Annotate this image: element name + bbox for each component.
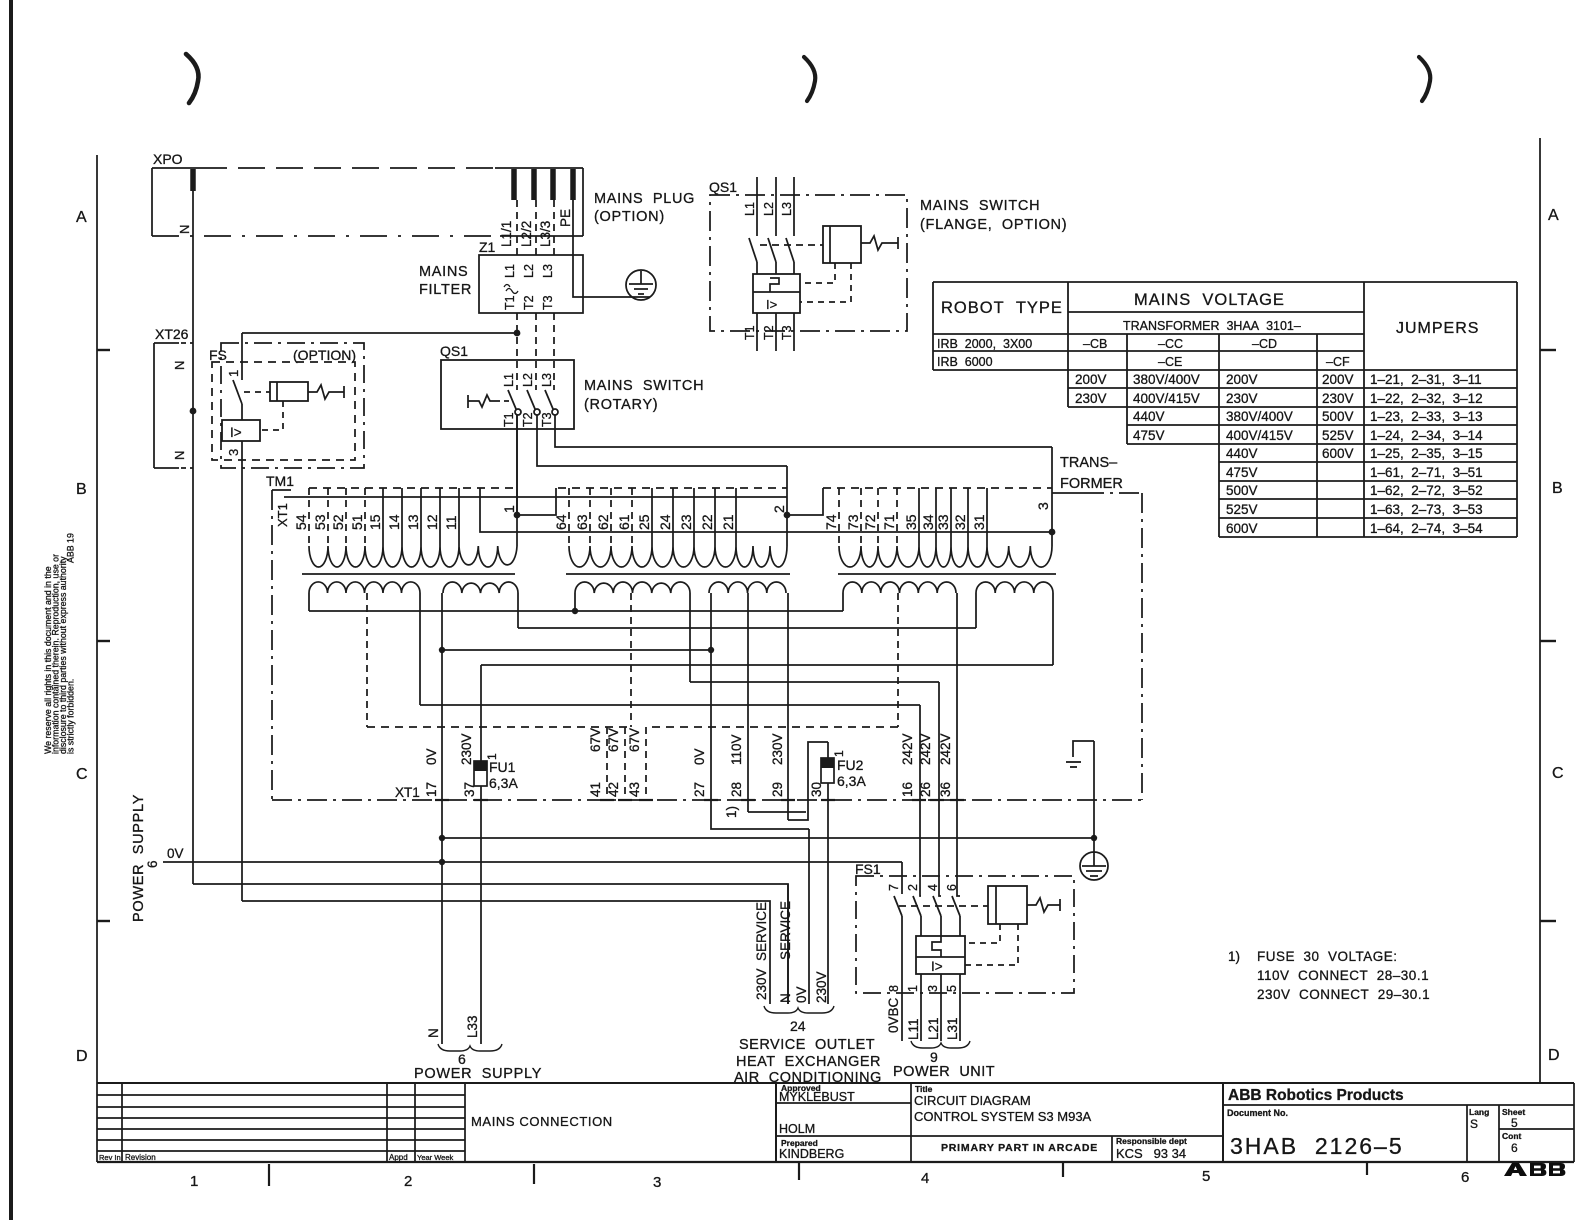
QS1 flange input wires [757, 177, 794, 236]
svg-text:(ROTARY): (ROTARY) [584, 397, 658, 413]
fuse FU1 terminal 1 label [485, 753, 499, 760]
label 6 power supply left [145, 860, 160, 868]
svg-text:0V: 0V [794, 986, 809, 1003]
svg-text:MAINS CONNECTION: MAINS CONNECTION [471, 1114, 613, 1129]
svg-text:6: 6 [1461, 1169, 1469, 1186]
QS1 flange blade pole 2 [768, 238, 776, 262]
svg-text:T2: T2 [762, 325, 776, 340]
service outlet wire 0V [808, 829, 810, 1004]
wire PE to earth [573, 200, 650, 297]
QS1 rotary blade pole 1 [508, 390, 521, 415]
svg-text:D: D [76, 1048, 88, 1065]
FS1 thermal element [932, 936, 941, 957]
FS1 actuator dashed link [899, 905, 988, 907]
rail 0V power supply [163, 861, 902, 863]
frame right border [1539, 138, 1541, 1083]
svg-text:XT1: XT1 [275, 503, 290, 527]
FS1 output wires [921, 974, 960, 1041]
primary tap label 1 [501, 505, 517, 513]
node tap1 [514, 512, 521, 519]
svg-text:XPO: XPO [153, 151, 183, 167]
FS1 wire pin7 hook [901, 862, 903, 894]
svg-text:16: 16 [900, 782, 915, 797]
svg-text:SERVICE: SERVICE [778, 901, 793, 960]
svg-text:1: 1 [226, 370, 241, 377]
label MAINS SWITCH ROTARY [584, 378, 704, 413]
svg-text:8: 8 [887, 985, 901, 992]
svg-text:12: 12 [424, 514, 440, 530]
FS1 pin labels top [887, 884, 959, 891]
primary pins group A [309, 488, 459, 546]
secondary B2 right end wire 29 [787, 593, 789, 820]
svg-text:1: 1 [832, 750, 846, 757]
svg-text:31: 31 [971, 514, 987, 530]
FS pin 1 label [226, 370, 241, 377]
svg-text:TRANSFORMER 3HAA 3101–: TRANSFORMER 3HAA 3101– [1123, 319, 1301, 333]
QS1 flange blade pole 1 [749, 238, 757, 262]
approved cell divider under MYKLEBUST [776, 1102, 911, 1104]
svg-text:MYKLEBUST: MYKLEBUST [779, 1090, 855, 1104]
svg-text:72: 72 [862, 514, 878, 530]
core bar group A [302, 573, 515, 575]
svg-text:Responsible dept: Responsible dept [1116, 1136, 1187, 1146]
primary pins group B [569, 488, 736, 546]
label AIR CONDITIONING [734, 1070, 882, 1086]
svg-text:73: 73 [845, 514, 861, 530]
approved cell texts [779, 1083, 855, 1161]
svg-text:C: C [1552, 765, 1564, 782]
svg-text:0VBC: 0VBC [886, 997, 901, 1033]
svg-text:6,3A: 6,3A [837, 773, 866, 789]
FS wire 1 from rail [241, 333, 243, 380]
wire QS1 T2 down [537, 415, 787, 466]
row label D left [76, 1048, 88, 1065]
FS trip dashed link [260, 401, 283, 430]
approved cell left edge [775, 1083, 777, 1162]
primary pin number labels group A [293, 514, 459, 530]
wire tap2 to group C bus [787, 488, 823, 515]
QS1 flange input labels [743, 202, 794, 216]
revision table column Appd divider [386, 1083, 388, 1162]
core bar group C [838, 573, 1056, 575]
table row IRB 6000 [937, 355, 1350, 369]
svg-text:1–22, 2–32, 3–12: 1–22, 2–32, 3–12 [1370, 391, 1483, 406]
wire tap3 vertical [1051, 447, 1053, 546]
secondary A1 right end wire [419, 593, 421, 705]
svg-text:L3: L3 [780, 202, 794, 216]
FS1 blade pole 2 [913, 896, 921, 936]
breaker FS label [209, 347, 227, 363]
connector XPO outline [152, 168, 583, 236]
svg-text:L1: L1 [743, 202, 757, 216]
svg-text:(FLANGE, OPTION): (FLANGE, OPTION) [920, 217, 1067, 233]
svg-text:600V: 600V [1226, 521, 1258, 536]
fuse FU1 label [489, 759, 518, 791]
svg-text:FU1: FU1 [489, 759, 516, 775]
lang cell divider [1466, 1105, 1468, 1162]
label 9 power unit [930, 1049, 938, 1065]
svg-text:22: 22 [699, 514, 715, 530]
svg-text:ABB Robotics Products: ABB Robotics Products [1228, 1087, 1404, 1104]
secondary C1 left end wire [842, 593, 844, 611]
footnote mark 1) at wire 28 [724, 806, 739, 818]
rail 0V-earth from wire17 [442, 837, 1094, 839]
svg-text:QS1: QS1 [709, 179, 737, 195]
svg-text:3: 3 [653, 1174, 661, 1191]
FS I> text [230, 425, 242, 440]
svg-text:54: 54 [293, 514, 309, 530]
svg-text:110V: 110V [729, 734, 744, 765]
earth stub above circle [1093, 741, 1095, 852]
svg-text:41: 41 [588, 782, 603, 797]
secondary A1 mid tap dashed [366, 593, 368, 727]
rail 230V wire37 to C2R [481, 664, 1053, 666]
svg-text:32: 32 [952, 514, 968, 530]
svg-text:1–64, 2–74, 3–54: 1–64, 2–74, 3–54 [1370, 521, 1483, 536]
svg-text:T2: T2 [522, 295, 536, 310]
svg-text:26: 26 [918, 782, 933, 797]
wire 37 230V corner [480, 665, 482, 761]
svg-text:Document No.: Document No. [1227, 1108, 1288, 1118]
wire tap1 vertical [516, 415, 518, 546]
label POWER SUPPLY bottom [414, 1066, 542, 1082]
svg-text:71: 71 [881, 514, 897, 530]
svg-text:Year Week: Year Week [417, 1153, 454, 1162]
transformer TM1 primary winding group A [309, 546, 517, 567]
rail FS3 to service 230V [242, 901, 770, 1004]
column tick 4/5 [1062, 1162, 1064, 1177]
scan curl mark 3 [1419, 57, 1430, 101]
breaker FS1 enclosure dash-dot [856, 876, 1074, 993]
FS1 blade pole 6 [952, 896, 960, 936]
svg-text:1–25, 2–35, 3–15: 1–25, 2–35, 3–15 [1370, 446, 1483, 461]
transformer TM1 secondary winding A2 [443, 582, 518, 593]
svg-text:L1/1: L1/1 [499, 221, 514, 247]
svg-text:6: 6 [458, 1051, 466, 1067]
row label C left [76, 766, 88, 783]
wire 29 jumper to 30 [788, 742, 828, 820]
FS1 blade pole 4 [933, 896, 941, 936]
label MAINS FILTER [419, 264, 472, 298]
title block right edge [1573, 1083, 1575, 1162]
svg-text:34: 34 [920, 514, 936, 530]
svg-text:230V CONNECT 29–30.1: 230V CONNECT 29–30.1 [1257, 987, 1430, 1002]
svg-text:3: 3 [1035, 502, 1051, 510]
QS1 flange output stubs [757, 313, 794, 351]
approved cell divider above Prepared [776, 1135, 911, 1137]
table header ROBOT TYPE [941, 299, 1063, 317]
svg-text:61: 61 [616, 514, 632, 530]
connector XPO label [153, 151, 183, 167]
QS1 flange blade pole 3 [786, 238, 794, 262]
secondary A2 left end wire 17 [441, 593, 443, 650]
svg-text:T3: T3 [540, 412, 554, 427]
ABB cell left edge [1222, 1083, 1224, 1162]
svg-text:CONTROL SYSTEM S3 M93A: CONTROL SYSTEM S3 M93A [914, 1109, 1092, 1124]
label 0V power supply [167, 846, 184, 861]
svg-text:L3: L3 [540, 373, 554, 387]
svg-text:Revision: Revision [125, 1153, 156, 1162]
table header JUMPERS [1396, 320, 1479, 337]
svg-text:Rev In: Rev In [99, 1153, 121, 1162]
svg-text:N: N [778, 993, 793, 1003]
earth symbol top [626, 270, 656, 300]
title cell divider above PRIMARY PART [911, 1135, 1223, 1137]
wire 17 0V down [441, 650, 443, 1044]
svg-text:9: 9 [930, 1049, 938, 1065]
FS wire 3 down [241, 441, 243, 901]
svg-text:IRB 2000, 3X00: IRB 2000, 3X00 [937, 337, 1032, 351]
node rail650 wire17 [439, 647, 445, 653]
XPO pin N [190, 169, 196, 191]
switch QS1 flange option box [710, 195, 907, 331]
wire tap2 vertical [786, 466, 788, 546]
QS1 rotary pin labels bottom [502, 412, 554, 427]
revision table column Rev divider [121, 1083, 123, 1162]
primary rail left [284, 496, 787, 498]
wire 26 down [939, 682, 941, 896]
wire L1 plug to Z1 dashed [516, 200, 518, 255]
svg-text:51: 51 [349, 514, 365, 530]
svg-text:28: 28 [729, 782, 744, 797]
FS1 solenoid [988, 886, 1027, 924]
wire L3 plug to Z1 dashed [553, 200, 555, 255]
svg-text:24: 24 [790, 1018, 806, 1034]
svg-text:AIR CONDITIONING: AIR CONDITIONING [734, 1070, 882, 1086]
ABB cell divider under logo row [1223, 1104, 1574, 1106]
row label B left [76, 481, 87, 498]
svg-text:475V: 475V [1133, 428, 1165, 443]
svg-text:3HAB 2126–5: 3HAB 2126–5 [1230, 1133, 1404, 1159]
QS1 flange solenoid [823, 226, 861, 263]
column tick 5/6 [1366, 1162, 1368, 1175]
QS1 flange thermal element [770, 278, 779, 292]
svg-text:400V/415V: 400V/415V [1133, 391, 1200, 406]
filter Z1 box [479, 255, 583, 313]
svg-text:L33: L33 [465, 1015, 480, 1038]
QS1 flange output labels [743, 325, 794, 340]
secondary B1 right end wire [689, 593, 691, 682]
XT26 pin labels N N [172, 361, 187, 460]
svg-text:17: 17 [424, 782, 439, 797]
svg-text:MAINS VOLTAGE: MAINS VOLTAGE [1134, 291, 1285, 309]
FS pin 3 label [226, 449, 241, 456]
frame left tick B/C [97, 640, 110, 642]
svg-text:L1: L1 [503, 264, 517, 278]
svg-text:–CD: –CD [1252, 337, 1277, 351]
wire L3 Z1 to QS1 dashed [553, 313, 555, 390]
terminal XT1 label rotated [275, 503, 290, 527]
secondary B2 mid tap wire 28 [747, 593, 749, 812]
primary dashed bus group C [823, 487, 1052, 489]
svg-text:5: 5 [1511, 1116, 1518, 1130]
frame right tick C/D [1540, 920, 1556, 922]
primary tap label 3 [1035, 502, 1051, 510]
svg-text:FORMER: FORMER [1060, 476, 1123, 492]
service outlet wire N [787, 884, 789, 1004]
svg-text:500V: 500V [1226, 483, 1258, 498]
svg-text:S: S [1470, 1117, 1478, 1131]
frame right tick A/B [1540, 349, 1556, 351]
svg-text:42: 42 [606, 782, 621, 797]
revision table column Year divider [414, 1083, 416, 1162]
svg-text:35: 35 [903, 514, 919, 530]
terminal XT26 bracket [154, 343, 193, 468]
transformer TM1 label [266, 473, 294, 489]
switch QS1 flange label [709, 179, 737, 195]
page left heavy border [9, 0, 13, 1220]
FS solenoid [270, 382, 308, 401]
svg-text:FUSE 30 VOLTAGE:: FUSE 30 VOLTAGE: [1257, 949, 1398, 964]
svg-text:6: 6 [945, 884, 959, 891]
svg-text:–CB: –CB [1083, 337, 1107, 351]
switch QS1 rotary box [441, 360, 574, 429]
wire L1 Z1 to QS1 dashed [516, 313, 518, 390]
svg-text:N: N [177, 225, 192, 234]
primary group A end wire to tap3 [480, 488, 1052, 532]
svg-text:52: 52 [330, 514, 346, 530]
svg-text:L11: L11 [906, 1018, 921, 1040]
svg-text:N: N [426, 1028, 441, 1038]
power supply wire L33 label [465, 1015, 480, 1038]
FS1 breaker box [916, 936, 965, 974]
column number 4 [921, 1170, 929, 1187]
svg-text:30: 30 [809, 782, 824, 797]
secondary B2 left end wire 27 [710, 593, 712, 650]
terminal XT1 wire numbers [424, 782, 953, 797]
svg-text:2: 2 [771, 505, 787, 513]
label HEAT EXCHANGER [736, 1054, 881, 1070]
primary dashed bus group B [558, 487, 787, 489]
rail N to service outlet [193, 884, 788, 1004]
FS1 spring [1027, 898, 1060, 912]
primary pins group C [839, 488, 987, 546]
svg-text:1–23, 2–33, 3–13: 1–23, 2–33, 3–13 [1370, 409, 1483, 424]
scan curl mark 2 [804, 57, 815, 101]
secondary A1 left end wire [308, 593, 310, 611]
FS wire into I> box [241, 404, 243, 420]
svg-text:1: 1 [501, 505, 517, 513]
table row IRB 2000 [937, 337, 1277, 351]
FS1 magnetic element I> [931, 959, 943, 974]
mains connection cell label [471, 1114, 613, 1129]
power supply wire N label [426, 1028, 441, 1038]
transformer TM1 secondary winding B1 [575, 582, 690, 593]
frame left tick A/B [97, 349, 110, 351]
svg-text:N: N [172, 451, 187, 460]
svg-text:33: 33 [935, 514, 951, 530]
wire tap1 to group B bus [517, 488, 556, 515]
svg-text:HEAT EXCHANGER: HEAT EXCHANGER [736, 1054, 881, 1070]
core bar group B [566, 573, 790, 575]
column number 2 [404, 1173, 412, 1190]
svg-text:I>: I> [230, 425, 242, 440]
svg-text:PE: PE [558, 209, 573, 227]
fuse FU2 label [837, 757, 866, 789]
svg-text:FU2: FU2 [837, 757, 864, 773]
svg-text:5: 5 [1202, 1168, 1210, 1185]
column tick 3/4 [798, 1162, 800, 1180]
svg-text:74: 74 [823, 514, 839, 530]
terminal XT1 row label [395, 785, 420, 800]
svg-text:67V: 67V [627, 728, 642, 752]
FS magnetic element box I> [222, 420, 260, 441]
node 0V rail at wire17 [439, 859, 445, 865]
title block outer top edge [97, 1082, 1574, 1084]
svg-text:23: 23 [678, 514, 694, 530]
svg-text:I>: I> [931, 959, 943, 974]
QS1 flange spring [861, 236, 898, 250]
FS spring [308, 385, 344, 399]
svg-text:PRIMARY PART IN ARCADE: PRIMARY PART IN ARCADE [941, 1142, 1098, 1154]
svg-text:242V: 242V [900, 733, 915, 765]
svg-text:HOLM: HOLM [779, 1122, 815, 1136]
svg-text:D: D [1548, 1047, 1560, 1064]
svg-text:JUMPERS: JUMPERS [1396, 320, 1479, 337]
node tap3 [1049, 529, 1056, 536]
label 6 power supply bottom [458, 1051, 466, 1067]
svg-text:IRB 6000: IRB 6000 [937, 355, 993, 369]
svg-text:MAINS PLUG: MAINS PLUG [594, 191, 695, 207]
service labels column [754, 901, 829, 1003]
rail 242V B1R to wire26 [690, 681, 939, 683]
svg-text:242V: 242V [918, 733, 933, 765]
QS1 rotary blade pole 2 [527, 390, 540, 415]
fuse FU1 [474, 761, 487, 786]
mains plug pin L1/1 [511, 169, 517, 200]
row label D right [1548, 1047, 1560, 1064]
table header MAINS VOLTAGE [1134, 291, 1285, 309]
svg-text:–CC: –CC [1158, 337, 1183, 351]
mains plug pin L3/3 [550, 169, 556, 200]
note fuse 30 voltage [1228, 949, 1430, 1002]
svg-text:67V: 67V [588, 728, 603, 752]
svg-text:L2: L2 [521, 373, 535, 387]
svg-text:KINDBERG: KINDBERG [779, 1147, 844, 1161]
svg-text:11: 11 [443, 515, 459, 530]
svg-text:6: 6 [145, 860, 160, 868]
svg-text:1–62, 2–72, 3–52: 1–62, 2–72, 3–52 [1370, 483, 1483, 498]
mains plug pin L2/2 [531, 169, 537, 200]
svg-text:–CF: –CF [1326, 355, 1350, 369]
svg-text:4: 4 [926, 884, 940, 891]
label 24 [790, 1018, 806, 1034]
svg-text:(OPTION): (OPTION) [293, 347, 356, 363]
filter Z1 squiggle symbol [504, 285, 518, 294]
svg-text:380V/400V: 380V/400V [1226, 409, 1293, 424]
fuse FU2 wire top [827, 742, 829, 758]
svg-text:53: 53 [312, 514, 328, 530]
svg-text:FILTER: FILTER [419, 282, 472, 298]
svg-text:0V: 0V [424, 748, 439, 765]
svg-text:1: 1 [906, 985, 920, 992]
earth symbol bottom [1080, 852, 1108, 880]
transformer TM1 secondary winding C2 [976, 582, 1053, 593]
svg-text:Lang: Lang [1469, 1107, 1489, 1117]
svg-text:230V: 230V [770, 733, 785, 765]
svg-text:POWER SUPPLY: POWER SUPPLY [414, 1066, 542, 1082]
svg-text:Cont: Cont [1502, 1131, 1522, 1141]
rail 242V A1R to wire16 [420, 704, 920, 706]
QS1 rotary pin labels top [502, 373, 554, 387]
breaker FS option outer box [221, 343, 364, 468]
rail 0V winding starts [309, 610, 843, 612]
svg-text:36: 36 [938, 782, 953, 797]
voltage labels above XT1 [424, 728, 953, 765]
column tick 2/3 [533, 1164, 535, 1184]
wire FS feed rail [242, 332, 517, 334]
transformer TM1 primary winding group B [569, 546, 787, 567]
